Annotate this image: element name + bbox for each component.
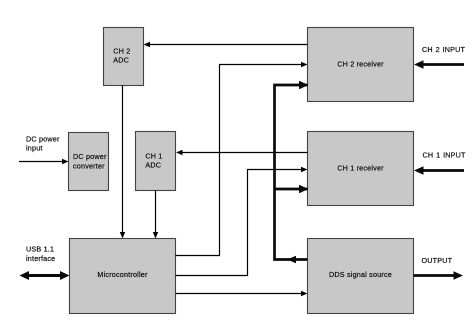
svg-text:ADC: ADC: [113, 55, 129, 64]
wire OUTPUT arrow: [414, 271, 464, 279]
block CH2 receiver: [308, 28, 414, 102]
svg-text:OUTPUT: OUTPUT: [422, 256, 453, 265]
block Microcontroller: [70, 239, 176, 314]
block DDS signal source: [308, 239, 414, 314]
block DC power converter: [69, 133, 109, 191]
wire CH1 INPUT arrow: [414, 166, 464, 174]
svg-text:interface: interface: [26, 254, 55, 263]
wire CH2 ADC to Microcontroller: [120, 86, 125, 239]
wire CH2 receiver to CH2 ADC: [144, 42, 308, 47]
svg-text:converter: converter: [73, 162, 105, 171]
svg-text:CH 2 receiver: CH 2 receiver: [337, 60, 384, 69]
label USB 1.1 interface: [26, 245, 55, 264]
wire CH1 ADC to Microcontroller: [153, 191, 158, 239]
wire DC power input arrow: [19, 159, 69, 164]
svg-text:CH 1: CH 1: [145, 151, 162, 160]
wire Microcontroller to DDS: [176, 291, 308, 296]
svg-text:CH 2 INPUT: CH 2 INPUT: [422, 45, 466, 54]
wire DDS output bus to receivers: [275, 81, 309, 263]
svg-text:CH 2: CH 2: [113, 46, 130, 55]
label DC power input: [26, 135, 60, 153]
svg-text:ADC: ADC: [145, 160, 161, 169]
block CH1 receiver: [308, 132, 414, 206]
svg-text:CH 1 receiver: CH 1 receiver: [337, 164, 384, 173]
wire Microcontroller to CH2 receiver: [176, 62, 308, 256]
wire USB double arrow: [20, 271, 70, 280]
svg-text:DC power: DC power: [26, 135, 60, 144]
wire CH1 receiver to CH1 ADC: [176, 150, 308, 155]
svg-text:input: input: [26, 144, 43, 153]
svg-text:DDS signal source: DDS signal source: [329, 270, 392, 279]
svg-text:CH 1 INPUT: CH 1 INPUT: [423, 151, 467, 160]
svg-text:DC power: DC power: [73, 152, 107, 161]
svg-text:USB 1.1: USB 1.1: [26, 245, 54, 254]
wire CH2 INPUT arrow: [414, 60, 464, 68]
wire Microcontroller to CH1 receiver: [176, 167, 308, 276]
block CH1 ADC: [136, 132, 176, 191]
svg-text:Microcontroller: Microcontroller: [97, 270, 148, 279]
block CH2 ADC: [104, 28, 144, 86]
